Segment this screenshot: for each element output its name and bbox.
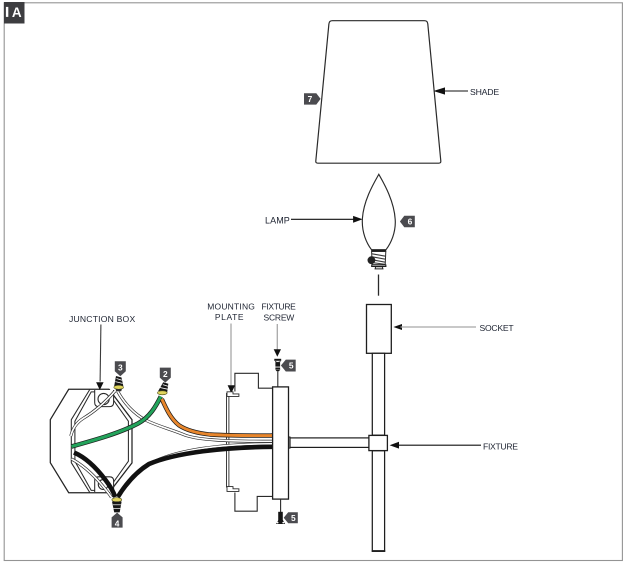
fixture screw icon bottom xyxy=(276,512,285,524)
svg-text:A: A xyxy=(12,5,22,20)
LAMP label arrow xyxy=(265,216,363,226)
step label 1A xyxy=(4,2,25,24)
wire connector 3 xyxy=(114,376,124,391)
line plate to bottom screw xyxy=(280,499,282,512)
wire connector 2 xyxy=(157,382,168,395)
svg-text:3: 3 xyxy=(118,363,123,373)
tag 4 xyxy=(112,513,123,529)
svg-text:JUNCTION BOX: JUNCTION BOX xyxy=(69,314,135,324)
white wire connector3 to wall xyxy=(71,391,115,436)
orange wire connector2 to plate xyxy=(162,399,272,436)
white wire connector4 to wall xyxy=(72,459,112,498)
socket xyxy=(367,305,392,354)
SOCKET label arrow xyxy=(393,323,514,333)
junction box bottom screw tab xyxy=(95,477,114,492)
canopy outline bottom xyxy=(235,493,273,512)
svg-text:7: 7 xyxy=(308,94,313,104)
svg-text:FIXTURE: FIXTURE xyxy=(262,301,297,311)
svg-text:6: 6 xyxy=(408,217,413,227)
junction box opening rim xyxy=(75,392,128,491)
lamp bulb xyxy=(362,174,395,269)
svg-text:FIXTURE: FIXTURE xyxy=(483,441,518,451)
junction box top screw tab xyxy=(95,390,114,407)
junction box front face left edge xyxy=(71,390,89,493)
black wire connector4 to plate xyxy=(118,447,272,497)
shade xyxy=(316,21,441,164)
big plate (fixture backplate) xyxy=(273,387,289,499)
JUNCTION BOX label arrow xyxy=(69,314,135,390)
svg-text:SHADE: SHADE xyxy=(470,87,499,97)
tag 2 xyxy=(160,368,171,383)
black wire wall to connector4 xyxy=(74,453,115,498)
fixture screw icon top xyxy=(274,359,281,387)
svg-text:PLATE: PLATE xyxy=(215,312,244,322)
svg-text:LAMP: LAMP xyxy=(265,216,290,226)
fixture arm xyxy=(288,437,370,448)
mounting plate (thin) xyxy=(227,394,229,488)
wire connector 4 xyxy=(112,498,122,513)
junction box outline (back + front silhouette) xyxy=(50,389,132,492)
tag 5 bottom xyxy=(284,512,298,523)
mounting plate top clip xyxy=(227,392,239,397)
fixture cross joint xyxy=(369,435,388,450)
fixture tube upper xyxy=(372,353,384,435)
svg-text:4: 4 xyxy=(115,518,120,528)
tag 5 top xyxy=(281,360,296,372)
wire lamp to socket xyxy=(378,275,380,296)
SHADE label arrow xyxy=(433,87,499,97)
canopy outline top xyxy=(235,373,273,391)
svg-text:2: 2 xyxy=(163,369,168,379)
tag 6 xyxy=(400,216,415,227)
tag 3 xyxy=(115,361,126,376)
svg-text:SCREW: SCREW xyxy=(263,312,294,322)
svg-text:SOCKET: SOCKET xyxy=(480,323,515,333)
mounting plate bottom clip xyxy=(227,487,239,492)
white wire connector3 to plate xyxy=(118,391,273,441)
fixture tube lower xyxy=(372,451,384,552)
white wire connector4 to plate xyxy=(119,444,273,496)
svg-text:5: 5 xyxy=(291,513,296,523)
FIXTURE label arrow xyxy=(390,441,519,451)
MOUNTING PLATE label arrow xyxy=(207,301,255,393)
tag 7 xyxy=(304,93,321,104)
svg-text:5: 5 xyxy=(289,361,294,371)
lamp screw base xyxy=(371,250,386,252)
green wire wall to connector2 xyxy=(72,397,161,447)
FIXTURE SCREW label arrow xyxy=(262,301,297,357)
svg-text:MOUNTING: MOUNTING xyxy=(207,301,255,311)
